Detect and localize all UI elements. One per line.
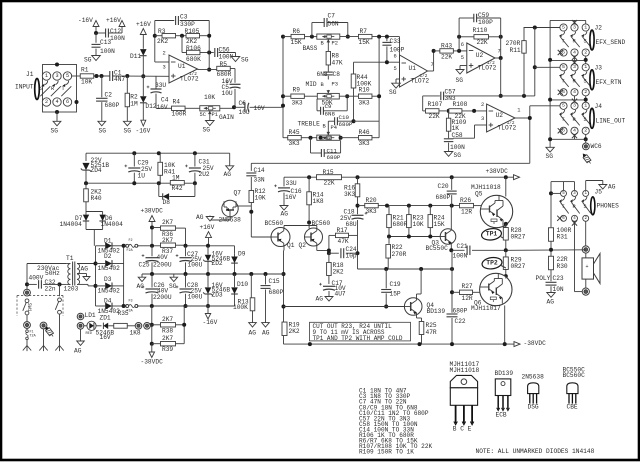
wire line-out bus down to power amp input [251, 163, 530, 171]
wire J5 sleeve to speaker [575, 221, 586, 291]
resistor R108 22K [449, 101, 487, 120]
svg-text:6N8: 6N8 [325, 111, 336, 118]
diode D3 1N5402 [96, 276, 124, 295]
resistor R37 2K7 [152, 237, 186, 255]
svg-text:C21: C21 [457, 243, 468, 250]
svg-text:2200U: 2200U [153, 294, 172, 301]
svg-text:AG: AG [316, 295, 324, 302]
resistor R106 680K [182, 36, 214, 64]
ground AG below C25 [137, 274, 146, 290]
svg-text:R5: R5 [220, 61, 228, 68]
svg-text:33U: 33U [155, 82, 166, 89]
test point TP2 [481, 256, 505, 270]
svg-text:4N7: 4N7 [114, 76, 125, 83]
diode D4 1N5402 [96, 298, 124, 315]
svg-text:R4: R4 [173, 98, 181, 105]
svg-text:SG: SG [51, 128, 59, 135]
capacitor C2 680P [96, 76, 120, 121]
svg-text:1203: 1203 [64, 285, 79, 292]
svg-text:2K2: 2K2 [289, 328, 300, 335]
resistor R36 2K7 [152, 219, 186, 246]
wire J5 pin1 to AG [586, 181, 603, 191]
svg-text:R11: R11 [510, 47, 521, 54]
svg-text:EFX_SEND: EFX_SEND [596, 39, 626, 46]
svg-text:D8: D8 [163, 199, 171, 206]
svg-text:AG: AG [281, 211, 289, 218]
svg-text:TP1: TP1 [486, 231, 498, 238]
svg-text:100R: 100R [172, 110, 187, 117]
svg-text:AG: AG [196, 214, 204, 221]
diode D8 [159, 183, 195, 206]
resistor R30 22R [549, 250, 568, 281]
svg-text:15K: 15K [359, 39, 370, 46]
svg-text:+38VDC: +38VDC [486, 168, 509, 175]
wire tone stack left bus [281, 35, 285, 138]
svg-text:MID: MID [306, 81, 317, 88]
svg-text:1: 1 [517, 108, 520, 114]
svg-text:50K: 50K [322, 135, 333, 142]
ground SG below J4 [546, 147, 555, 160]
svg-text:330P: 330P [180, 21, 195, 28]
wire D7 D6 join to raw +38 [86, 230, 103, 246]
svg-text:R106: R106 [186, 45, 201, 52]
svg-text:SG: SG [389, 89, 397, 96]
svg-text:TLO72: TLO72 [411, 78, 430, 85]
svg-text:R9: R9 [293, 86, 301, 93]
resistor R1 10K [80, 66, 94, 85]
svg-text:100K: 100K [357, 80, 372, 87]
speaker terminal top pad [582, 246, 589, 253]
svg-text:22K: 22K [441, 53, 452, 60]
zener ZD1 5246B 16V [96, 314, 115, 341]
svg-text:Q7: Q7 [234, 189, 242, 196]
capacitor C4 33U 16V [147, 76, 169, 111]
ground AG at Q7 [196, 214, 214, 221]
svg-text:R20: R20 [366, 197, 377, 204]
wire psu top rail [86, 151, 230, 166]
svg-text:R30: R30 [557, 263, 568, 270]
wire mid ground row [142, 272, 284, 276]
capacitor C29 1U 25V [125, 153, 153, 183]
svg-text:2: 2 [481, 102, 484, 108]
resistor R21 680R [387, 206, 408, 237]
wire Q2 collector to R17 [317, 235, 335, 255]
capacitor C21 100N [449, 243, 506, 260]
ground SG below C27 [169, 274, 178, 290]
capacitor C8 6N8 [317, 71, 341, 79]
svg-text:R: R [573, 78, 576, 84]
net +38VDC arrow at R36 [141, 208, 164, 246]
capacitor C24 10p [329, 246, 358, 259]
resistor R25 47R [419, 322, 437, 345]
svg-text:R42: R42 [172, 185, 183, 192]
wire U1a feedback column [198, 21, 217, 72]
svg-text:LD1: LD1 [85, 312, 96, 319]
resistor R20 3K3 [358, 197, 460, 215]
svg-text:NOTE: ALL UNMARKED DIODES 1N41: NOTE: ALL UNMARKED DIODES 1N4148 [476, 448, 595, 455]
resistor R26 12R [460, 197, 482, 215]
resistor R15 22K [317, 169, 342, 187]
svg-text:AG: AG [74, 347, 82, 354]
capacitor C31 2U2 25V [185, 153, 214, 183]
resistor R11 270R [506, 27, 527, 96]
svg-text:10K: 10K [204, 94, 215, 101]
zener ZD4 22V 5251B [81, 157, 110, 183]
svg-text:1: 1 [584, 103, 587, 109]
svg-text:Q2: Q2 [299, 242, 307, 249]
svg-text:R110: R110 [473, 27, 488, 34]
svg-text:56N: 56N [328, 21, 339, 28]
svg-text:1: 1 [584, 64, 587, 70]
capacitor C58 100N [444, 132, 465, 152]
text note unmarked diodes [476, 448, 595, 455]
svg-text:680P: 680P [327, 154, 341, 161]
diode D2 1N5402 [96, 253, 124, 272]
svg-text:R7: R7 [360, 28, 368, 35]
svg-text:S: S [40, 86, 43, 92]
capacitor C10 680P treble wiper [328, 114, 379, 135]
net -16V arrow below D12 [136, 120, 151, 134]
connector J1 INPUT [15, 63, 79, 115]
note box cut out R23 R24 [310, 322, 411, 342]
capacitor C1 4N7 [110, 70, 126, 83]
svg-text:D4: D4 [104, 298, 112, 305]
terminal pad LED right 1 [135, 323, 142, 330]
svg-text:1K8: 1K8 [313, 198, 324, 205]
wire +38 row to zeners [150, 244, 235, 253]
transformer T1 230Vac 1203 [37, 255, 80, 292]
svg-text:1K8: 1K8 [130, 329, 141, 336]
svg-text:10p: 10p [346, 252, 357, 259]
resistor R110 22K [457, 27, 503, 46]
wire U2b pin3 ground stub [453, 125, 487, 138]
svg-text:680R: 680R [393, 221, 408, 228]
svg-text:SG: SG [456, 77, 464, 84]
fuse F3 negative rail [124, 299, 152, 313]
svg-text:DSG: DSG [528, 404, 539, 411]
svg-text:C2: C2 [105, 92, 113, 99]
wire Q5 emitter node [503, 222, 508, 228]
resistor R23 10K [407, 206, 424, 237]
svg-text:100U: 100U [188, 293, 203, 300]
transistor Q2 BC560 [299, 220, 331, 249]
svg-text:16V: 16V [254, 105, 265, 112]
svg-text:R40: R40 [91, 195, 102, 202]
svg-text:5: 5 [562, 103, 565, 109]
net -16V arrow below ZD3 row [203, 306, 218, 326]
svg-text:S: S [584, 204, 587, 210]
net +16V below Q7 [200, 224, 215, 246]
fuse F1 [26, 328, 37, 342]
svg-text:C15: C15 [269, 278, 280, 285]
svg-text:15K: 15K [434, 221, 445, 228]
wire mix bus y=95.9 [423, 94, 535, 98]
resistor R10 3K3 [339, 86, 379, 106]
svg-text:2K7: 2K7 [162, 335, 173, 342]
capacitor C19 15P [381, 269, 401, 309]
svg-text:TLO72: TLO72 [498, 125, 517, 132]
svg-text:R38: R38 [162, 327, 173, 334]
svg-text:B C E: B C E [453, 426, 472, 433]
connector J2 EFX_SEND [550, 20, 625, 60]
svg-text:2: 2 [584, 89, 587, 95]
svg-text:C13: C13 [100, 39, 111, 46]
svg-text:R31: R31 [557, 233, 568, 240]
svg-text:5: 5 [66, 73, 69, 79]
svg-text:AG: AG [224, 171, 232, 178]
wire Q3 base row [387, 235, 441, 239]
svg-text:R109 150R TO 1K: R109 150R TO 1K [359, 449, 414, 456]
svg-text:3K3: 3K3 [366, 208, 377, 215]
wire +38VDC bus [284, 175, 511, 179]
wire x452 column [450, 250, 454, 312]
svg-text:4U7: 4U7 [335, 291, 346, 298]
svg-text:4: 4 [573, 89, 576, 95]
svg-text:J5: J5 [595, 188, 603, 195]
svg-text:33N: 33N [254, 177, 265, 184]
net +38VDC arrow right [486, 168, 520, 180]
svg-text:BC560: BC560 [312, 220, 331, 227]
capacitor C14 33N [246, 167, 265, 192]
svg-text:5: 5 [461, 55, 464, 61]
svg-text:C4: C4 [161, 96, 169, 103]
svg-text:J2: J2 [595, 25, 603, 32]
wire bridge left bus [94, 246, 98, 306]
svg-text:680P: 680P [453, 307, 468, 314]
svg-text:WC6: WC6 [591, 143, 602, 150]
resistor R18 2K2 [327, 253, 344, 284]
svg-text:270R: 270R [506, 40, 521, 47]
terminal pad LED left [77, 313, 84, 320]
potentiometer P4 TREBLE 50K [317, 132, 343, 143]
svg-text:EFX_RTN: EFX_RTN [596, 79, 622, 86]
svg-text:LINE_OUT: LINE_OUT [596, 117, 626, 124]
svg-text:AG: AG [608, 184, 616, 191]
svg-text:-16V: -16V [136, 128, 151, 135]
speaker terminal bottom pad [582, 288, 589, 295]
wire J1 bottom to SG [56, 112, 58, 121]
svg-text:10K: 10K [255, 194, 266, 201]
svg-text:P4: P4 [331, 125, 337, 131]
wire mains primary [25, 264, 67, 297]
ground AG right of J5 [599, 184, 616, 191]
diode D11 [130, 35, 147, 77]
transistor Q5 MJH11018 [471, 177, 513, 228]
transistor Q6 MJH11017 [471, 273, 512, 344]
svg-text:15K: 15K [291, 39, 302, 46]
chassis plug symbol near mains [43, 325, 55, 338]
capacitor C15 680P [261, 274, 284, 323]
svg-text:C19: C19 [390, 281, 401, 288]
resistor R27 12R [452, 283, 481, 302]
ground AG below C16 [280, 206, 288, 218]
svg-text:2N5638: 2N5638 [522, 373, 545, 380]
svg-text:U1: U1 [409, 65, 417, 72]
text component change list [359, 388, 432, 456]
chassis arrow N [39, 329, 47, 351]
text MID label [306, 81, 338, 88]
resistor R45 3K3 [283, 129, 317, 147]
ground SG below R2 [123, 121, 131, 134]
net -38VDC arrow below R39 [141, 344, 164, 366]
capacitor C17 4U7 10V [319, 280, 346, 297]
svg-text:1U: 1U [138, 172, 146, 179]
op-amp U2 first half TL072 [461, 42, 501, 73]
capacitor C59 100P [459, 12, 501, 37]
svg-text:10K: 10K [81, 79, 92, 86]
wire output node row [504, 248, 586, 253]
wire C1 to U1 pin3 [113, 74, 169, 78]
ground SG below P1 [203, 121, 215, 134]
svg-text:R3: R3 [158, 28, 166, 35]
wire U2a output down to mix bus [499, 58, 503, 98]
svg-text:1M: 1M [130, 101, 138, 108]
svg-text:+16V: +16V [106, 17, 121, 24]
resistor R9 3K3 [283, 86, 317, 106]
wire R7 to U1b [372, 35, 400, 55]
svg-text:T2A: T2A [30, 335, 37, 339]
svg-text:D3: D3 [104, 276, 112, 283]
wire U2a feedback to pin6 [458, 37, 460, 51]
svg-text:22n: 22n [45, 285, 56, 292]
svg-text:2200U: 2200U [153, 261, 172, 268]
fuse F2 positive rail [124, 239, 152, 253]
resistor R43 22K [434, 43, 467, 61]
svg-text:2: 2 [163, 51, 166, 57]
zener ZD2 16V 5246B [203, 246, 230, 274]
svg-text:+: + [586, 264, 589, 270]
svg-text:22K: 22K [429, 113, 440, 120]
text TREBLE label [298, 120, 337, 131]
svg-text:C9: C9 [325, 103, 332, 110]
terminal pad N [40, 322, 47, 329]
svg-text:P2: P2 [332, 41, 338, 47]
resistor R42 1M [170, 175, 184, 193]
terminal WC6 chassis pad [583, 139, 602, 150]
svg-text:TLO72: TLO72 [180, 76, 199, 83]
svg-text:16V: 16V [100, 334, 111, 341]
svg-text:J4: J4 [595, 103, 603, 110]
svg-text:C7: C7 [328, 12, 336, 19]
svg-text:2K7: 2K7 [162, 237, 173, 244]
svg-text:AG: AG [262, 330, 270, 337]
transistor Q4 BD139 [404, 269, 445, 322]
connector J5 PHONES [557, 188, 619, 225]
svg-text:3: 3 [481, 116, 484, 122]
ground AG below C15 [262, 323, 270, 337]
ground SG below C13 [84, 56, 100, 64]
diode D10 [231, 274, 248, 306]
resistor R12 10K [249, 188, 266, 237]
svg-text:GAIN: GAIN [219, 114, 234, 121]
capacitor C11 680P below treble pot [311, 138, 341, 161]
svg-text:0R27: 0R27 [511, 263, 526, 270]
potentiometer P1 GAIN 10K [200, 94, 237, 121]
svg-text:2: 2 [584, 49, 587, 55]
svg-text:TP2: TP2 [486, 260, 498, 267]
svg-text:R6: R6 [293, 28, 301, 35]
svg-text:10U: 10U [222, 90, 233, 97]
resistor R105 2K2 [176, 28, 210, 45]
svg-text:R43: R43 [441, 43, 452, 50]
svg-text:R107: R107 [428, 101, 443, 108]
svg-text:3: 3 [573, 103, 576, 109]
svg-text:BC560: BC560 [265, 220, 284, 227]
ground SG below J1 [51, 121, 61, 134]
svg-text:+16V: +16V [136, 21, 151, 28]
svg-text:1N5402: 1N5402 [98, 288, 121, 295]
ground SG below U1b [389, 83, 400, 96]
svg-text:PHONES: PHONES [597, 202, 620, 209]
svg-text:ZD3: ZD3 [212, 291, 223, 298]
svg-text:270R: 270R [392, 251, 407, 258]
svg-text:R1: R1 [81, 66, 89, 73]
wire U1a pin2 net [153, 21, 169, 63]
svg-text:F3: F3 [129, 299, 133, 303]
svg-text:F2: F2 [129, 239, 133, 243]
svg-text:D2: D2 [104, 253, 112, 260]
svg-text:4: 4 [55, 99, 58, 105]
svg-text:P1: P1 [212, 112, 218, 118]
net -38VDC arrow right [512, 340, 547, 347]
svg-text:5: 5 [562, 64, 565, 70]
capacitor C9 6N8 below mid pot [317, 94, 349, 118]
ground SG right of C56 [231, 56, 249, 63]
capacitor C7 56N over bass pot [312, 12, 348, 36]
diode D7 1N4004 [60, 212, 103, 230]
svg-text:3: 3 [163, 65, 166, 71]
svg-text:BC560C: BC560C [563, 372, 586, 379]
svg-text:1N4004: 1N4004 [60, 221, 83, 228]
svg-text:400V: 400V [29, 274, 44, 281]
capacitor C56 100N [215, 46, 236, 60]
resistor R107 22K [425, 101, 450, 120]
ground AG transformer center tap [81, 265, 91, 280]
capacitor C20 680P [436, 177, 457, 205]
resistor R41 10K [158, 153, 176, 183]
svg-text:2: 2 [584, 128, 587, 134]
svg-text:AG: AG [547, 298, 555, 305]
svg-text:MJH11018: MJH11018 [450, 367, 480, 374]
wire Q1 Q2 emitters to R14 [284, 226, 317, 230]
svg-text:3: 3 [55, 73, 58, 79]
svg-text:T: T [562, 204, 565, 210]
diode D6 1N4004 [99, 212, 123, 230]
capacitor C27 100U 25V [176, 246, 203, 274]
svg-text:100N: 100N [450, 144, 465, 151]
svg-text:100P: 100P [390, 47, 405, 54]
svg-text:ECB: ECB [496, 411, 507, 418]
svg-text:5: 5 [562, 24, 565, 30]
resistor R24 15K [428, 206, 445, 237]
svg-text:15P: 15P [390, 290, 401, 297]
capacitor C12 100N [94, 28, 125, 42]
svg-text:SG: SG [454, 152, 462, 159]
svg-text:SG: SG [546, 153, 554, 160]
svg-text:BC550C: BC550C [426, 245, 449, 252]
ground SG below C58 [444, 152, 461, 159]
svg-text:ZD2: ZD2 [212, 260, 223, 267]
net +16V arrow above D11 [136, 21, 151, 34]
svg-text:R27: R27 [462, 283, 473, 290]
svg-text:R15: R15 [323, 169, 334, 176]
svg-text:SG: SG [99, 128, 107, 135]
capacitor C5 10U 16V [222, 78, 241, 107]
svg-text:T: T [562, 117, 565, 123]
wire R11 top to J2 tip [524, 26, 560, 30]
svg-text:3: 3 [573, 24, 576, 30]
svg-text:SG: SG [124, 128, 132, 135]
